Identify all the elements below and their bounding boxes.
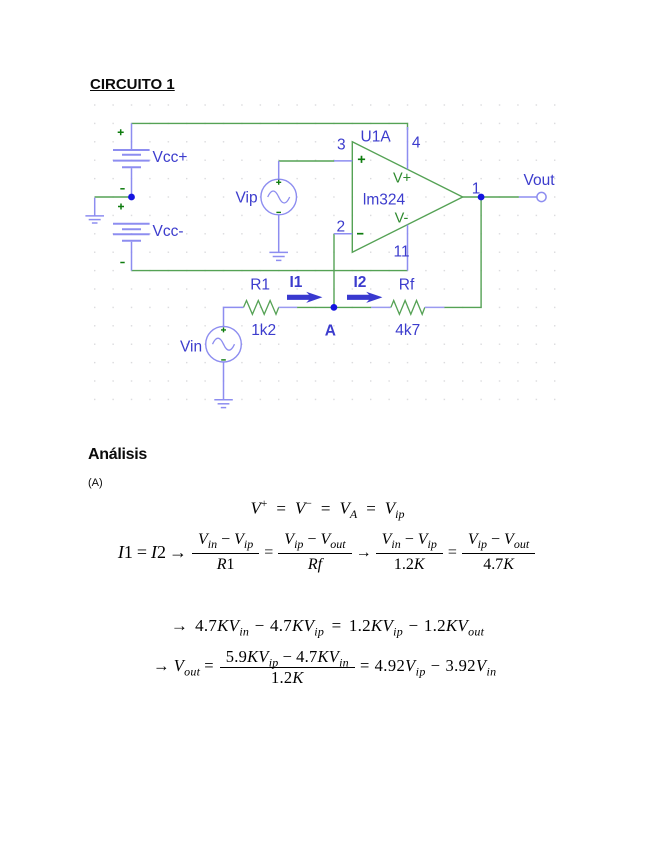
grid dot background: [94, 104, 556, 401]
output node dot: [478, 194, 485, 201]
op-amp minus mark: [357, 233, 363, 235]
wire junction to left ground: [95, 196, 132, 198]
source Vip: [261, 161, 297, 252]
svg-text:Vip: Vip: [236, 190, 258, 207]
svg-text:4: 4: [412, 135, 421, 152]
svg-text:2: 2: [337, 219, 346, 236]
battery Vcc-: [113, 224, 150, 271]
source Vin plus mark: [221, 327, 226, 332]
svg-text:Rf: Rf: [399, 277, 415, 294]
junction node dot (battery midpoint): [128, 194, 135, 201]
op-amp plus mark: [358, 156, 365, 163]
pin 4 wire: [407, 127, 409, 169]
svg-text:11: 11: [394, 244, 410, 261]
title CIRCUITO 1: [90, 76, 175, 93]
svg-text:Vcc-: Vcc-: [153, 223, 184, 240]
svg-text:V-: V-: [395, 211, 409, 227]
wire pin3 from Vip: [279, 160, 335, 162]
source Vip minus mark: [276, 211, 281, 213]
resistor R1: [244, 301, 298, 315]
heading Analisis: [88, 446, 147, 464]
svg-text:R1: R1: [250, 277, 270, 294]
node A dot: [331, 304, 338, 311]
equation line 1: [0, 498, 655, 522]
ground (under Vip): [269, 252, 288, 260]
battery Vcc- plus mark: [118, 204, 124, 210]
wire pin2 down to node A: [333, 234, 335, 308]
circuit schematic: [0, 0, 655, 440]
wire feedback from Rf up to output: [444, 197, 481, 307]
svg-text:1k2: 1k2: [251, 322, 276, 339]
svg-text:3: 3: [337, 137, 346, 154]
wire top rail: [132, 123, 408, 130]
svg-text:Vcc+: Vcc+: [153, 149, 188, 166]
current arrow I1: [287, 292, 322, 303]
svg-text:4k7: 4k7: [395, 322, 420, 339]
equation line 3: [0, 616, 655, 639]
svg-text:V+: V+: [393, 171, 411, 187]
current arrow I2: [347, 292, 382, 303]
pin 3 stub: [334, 160, 352, 162]
resistor Rf: [371, 301, 444, 315]
svg-text:A: A: [325, 323, 336, 340]
wire bottom rail: [132, 270, 408, 272]
equation line 2: [0, 531, 655, 574]
wire R1 to node A: [297, 306, 334, 308]
battery Vcc+ plus mark: [118, 129, 124, 135]
ground (under Vin): [214, 400, 233, 408]
battery Vcc+ minus mark: [120, 188, 124, 190]
svg-text:Vin: Vin: [180, 339, 202, 356]
battery Vcc- minus mark: [120, 262, 124, 264]
pin 2 stub: [334, 233, 352, 235]
svg-text:I2: I2: [354, 274, 367, 291]
svg-text:U1A: U1A: [361, 129, 392, 146]
svg-text:I1: I1: [290, 274, 303, 291]
source Vin: [206, 307, 244, 399]
wire node A to Rf: [334, 306, 371, 308]
label (A): [88, 477, 103, 489]
battery Vcc+: [113, 123, 150, 196]
wire output from apex: [463, 196, 519, 198]
output terminal stub: [519, 196, 537, 198]
ground (left): [85, 198, 104, 223]
op-amp U1A triangle: [352, 142, 462, 252]
pin 11 wire: [407, 225, 409, 271]
source Vip plus mark: [276, 180, 281, 185]
equation line 4: [153, 649, 497, 686]
svg-text:Vout: Vout: [524, 172, 556, 189]
output terminal circle: [537, 192, 546, 201]
svg-text:lm324: lm324: [363, 192, 406, 209]
source Vin minus mark: [221, 359, 226, 361]
